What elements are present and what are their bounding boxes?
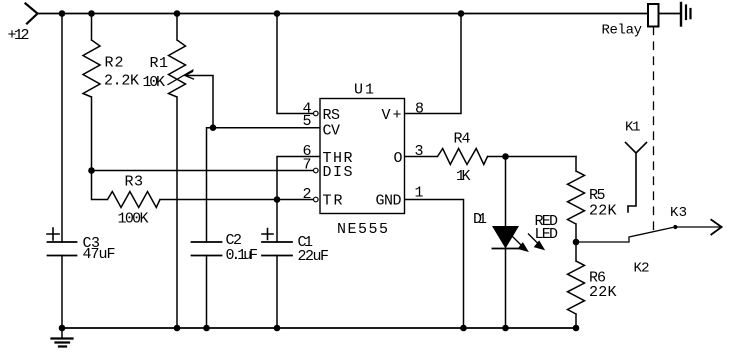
svg-text:TR: TR (323, 193, 343, 210)
svg-text:22K: 22K (589, 284, 617, 301)
svg-text:+12: +12 (8, 27, 30, 44)
svg-text:R2: R2 (105, 55, 124, 72)
svg-text:22K: 22K (589, 203, 617, 220)
svg-text:22uF: 22uF (298, 248, 330, 265)
svg-text:3: 3 (415, 143, 424, 160)
svg-text:NE555: NE555 (337, 221, 388, 238)
svg-text:K3: K3 (670, 205, 687, 221)
svg-text:O: O (394, 150, 403, 167)
svg-text:LED: LED (535, 226, 559, 243)
svg-text:R4: R4 (454, 131, 471, 148)
svg-text:U1: U1 (354, 82, 374, 99)
svg-text:Relay: Relay (602, 23, 643, 39)
svg-text:1: 1 (415, 185, 424, 202)
svg-text:R5: R5 (589, 187, 606, 204)
svg-text:K1: K1 (625, 120, 641, 136)
svg-text:5: 5 (303, 113, 312, 130)
svg-text:RS: RS (323, 107, 341, 124)
svg-text:7: 7 (303, 157, 312, 174)
svg-text:V+: V+ (382, 107, 402, 124)
svg-text:2: 2 (303, 186, 312, 203)
svg-text:47uF: 47uF (83, 246, 116, 263)
svg-text:10K: 10K (143, 74, 166, 91)
svg-text:0.1uF: 0.1uF (226, 247, 259, 264)
svg-text:K2: K2 (634, 261, 650, 277)
svg-text:D1: D1 (473, 211, 487, 228)
svg-text:100K: 100K (118, 211, 149, 228)
svg-text:CV: CV (323, 123, 341, 140)
svg-text:R3: R3 (125, 174, 144, 191)
svg-text:GND: GND (376, 193, 402, 210)
svg-text:R1: R1 (150, 55, 169, 72)
svg-text:1K: 1K (456, 168, 471, 185)
svg-text:DIS: DIS (323, 164, 353, 181)
svg-text:8: 8 (415, 101, 424, 118)
svg-text:2.2K: 2.2K (104, 73, 139, 90)
